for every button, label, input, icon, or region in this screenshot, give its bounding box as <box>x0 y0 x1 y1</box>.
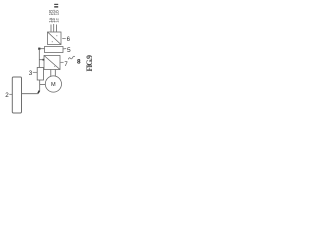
label 6 leader <box>62 37 66 39</box>
tick dot at box2 <box>43 59 45 61</box>
label 3 leader <box>33 71 37 73</box>
svg-text:M: M <box>51 82 56 88</box>
flat rect lens <box>45 47 64 53</box>
box1 beam splitter <box>48 32 62 45</box>
box2 mirror <box>44 56 60 70</box>
speckle in box2 <box>54 66 55 67</box>
shaft legs to motor <box>51 70 56 77</box>
vertical control wire <box>38 49 40 68</box>
wire junction to lens <box>39 48 44 50</box>
speckles in box1 <box>52 35 58 42</box>
svg-text:8: 8 <box>77 59 81 66</box>
label column b (above middle arrow) <box>51 9 56 23</box>
label column a (above left arrow) <box>48 10 53 23</box>
wavy arrow <box>68 56 75 59</box>
svg-text:3: 3 <box>29 70 33 77</box>
label 2 leader <box>9 93 12 95</box>
svg-text:2: 2 <box>5 92 9 99</box>
tall rect unit <box>12 77 21 113</box>
svg-text:FIG. 9: FIG. 9 <box>85 55 94 72</box>
label 7 leader <box>61 61 64 63</box>
svg-text:1c: 1c <box>55 17 60 22</box>
motor circle <box>45 76 61 92</box>
svg-text:1B: 1B <box>55 10 60 15</box>
corner arrowhead <box>38 90 40 93</box>
beam arrow lines into box1 <box>51 24 56 32</box>
tick to box2 <box>39 59 44 61</box>
junction dot <box>38 48 40 50</box>
svg-text:5: 5 <box>67 47 71 54</box>
small rect component <box>37 68 43 81</box>
label 5 leader <box>63 48 66 50</box>
label column c (above right arrow) <box>55 10 60 23</box>
label 10 (top rotated) <box>54 4 58 8</box>
leader to motor <box>40 84 46 86</box>
horizontal wire to drum unit <box>22 93 39 95</box>
wire below small rect <box>39 80 41 90</box>
